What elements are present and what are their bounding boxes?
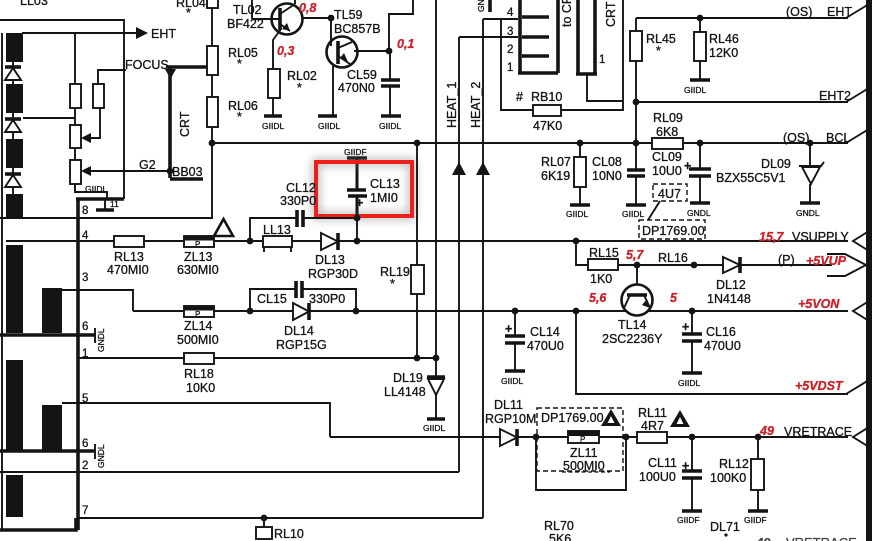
wire VSUPPLY main row y241 (6, 240, 114, 242)
4U7 dashed box (653, 184, 687, 201)
winding W4 outline (0, 518, 76, 530)
wire RL15 feed (576, 241, 588, 265)
svg-text:DL14: DL14 (284, 324, 314, 338)
wire RB10 to CRT column (561, 109, 623, 111)
svg-text:to CR: to CR (560, 0, 574, 27)
svg-text:*: * (390, 277, 395, 291)
svg-text:+5VON: +5VON (798, 297, 840, 311)
wire EHT2 node to BCL wire (635, 102, 637, 144)
svg-text:DL19: DL19 (393, 371, 423, 385)
svg-text:ZL11: ZL11 (570, 446, 598, 460)
node (OS) BCL label (783, 131, 850, 145)
flag VSUPPLY (853, 231, 869, 251)
svg-text:RL05: RL05 (228, 46, 258, 60)
ground GIIDL (DL19) (423, 419, 445, 433)
diode DL13 (308, 233, 358, 281)
svg-text:500MI0: 500MI0 (177, 333, 219, 347)
svg-text:*: * (297, 81, 302, 95)
capacitor CL59 (338, 51, 400, 115)
svg-text:7: 7 (82, 505, 88, 517)
junction CL15 right (353, 308, 360, 315)
svg-text:4U7: 4U7 (658, 187, 681, 201)
resistor RL45 (630, 18, 676, 61)
svg-text:CRT: CRT (178, 111, 192, 137)
svg-text:RL04: RL04 (176, 0, 206, 10)
DP1769.00 dashed box (lower) (537, 408, 623, 471)
resistor RB10 (516, 90, 562, 133)
svg-text:CL09: CL09 (652, 150, 682, 164)
junction CL13 bottom (354, 238, 361, 245)
svg-text:4R7: 4R7 (641, 419, 664, 433)
junction RL15 takeoff (573, 238, 580, 245)
junction emitter node (386, 48, 393, 55)
wire ABL return y218 (0, 217, 213, 219)
wire left rail (1, 33, 3, 530)
flag +5VUP (827, 254, 866, 276)
svg-text:6K19: 6K19 (541, 169, 570, 183)
wiper arrow pot1 (81, 108, 100, 143)
arrow HEAT_1 (452, 162, 466, 175)
wire pin2 row long (0, 471, 459, 473)
svg-text:VRETRACE: VRETRACE (786, 535, 857, 541)
svg-text:5K6: 5K6 (549, 532, 571, 541)
svg-text:P: P (195, 310, 200, 319)
ground GNDL rotated (pin6) (94, 328, 96, 343)
capacitor CL11 electrolytic (639, 437, 702, 510)
wire ZL11 bypass loop (536, 437, 626, 490)
svg-text:GNDL: GNDL (796, 208, 820, 218)
svg-text:+5VDST: +5VDST (795, 379, 844, 393)
flag +5VON (853, 301, 869, 321)
winding W3b (42, 405, 62, 450)
svg-text:GN: GN (476, 0, 486, 12)
wire divider feed (74, 33, 76, 84)
warning triangle filled (ZL11) (601, 409, 621, 426)
winding W2b (42, 288, 62, 333)
svg-text:4: 4 (507, 7, 514, 19)
pin rail vertical (76, 199, 80, 530)
svg-text:12K0: 12K0 (709, 46, 738, 60)
svg-text:RB10: RB10 (531, 90, 562, 104)
wire emitter node up and to top edge (389, 0, 413, 51)
wire DL14 to flag +5VON (309, 310, 848, 312)
svg-text:EHT: EHT (151, 27, 176, 41)
CRT socket stubs (522, 17, 549, 56)
svg-text:+: + (684, 159, 691, 173)
junction RL10 tap (261, 515, 268, 522)
svg-text:RGP10M: RGP10M (485, 412, 536, 426)
winding W1a (6, 33, 23, 62)
svg-text:+5VUP: +5VUP (806, 254, 847, 268)
svg-text:HEAT_2: HEAT_2 (469, 82, 483, 128)
CRT socket spine (518, 0, 522, 74)
svg-text:1N4148: 1N4148 (707, 292, 751, 306)
svg-text:1MI0: 1MI0 (370, 191, 398, 205)
svg-text:EHT2: EHT2 (819, 89, 851, 103)
wire TL02 emitter to RL02 (273, 29, 281, 69)
wire HEAT_2 vertical (482, 19, 484, 518)
junction TL14 base (634, 262, 641, 269)
junction CL13/CL12 (354, 215, 361, 222)
svg-text:DL12: DL12 (716, 278, 746, 292)
svg-text:0,8: 0,8 (299, 1, 316, 15)
svg-text:GNDL: GNDL (96, 444, 106, 468)
svg-text:RL11: RL11 (638, 406, 667, 420)
CRT socket bottom bar (518, 71, 558, 75)
CRT tube U symbol (576, 0, 597, 74)
svg-text:CL12: CL12 (286, 181, 316, 195)
svg-text:RL06: RL06 (228, 99, 258, 113)
potentiometer G2 pot (70, 160, 81, 184)
wire winding bottom y335 (0, 333, 95, 337)
wire BCL row right part (683, 142, 848, 144)
svg-text:LL13: LL13 (263, 223, 291, 237)
junction base TL59 (328, 15, 335, 22)
svg-text:GIIDF: GIIDF (677, 515, 700, 525)
svg-text:RL10: RL10 (274, 527, 304, 541)
resistor RL06 (207, 97, 258, 127)
potentiometer FOCUS pot (70, 125, 81, 148)
svg-text:RL19: RL19 (380, 265, 410, 279)
svg-text:6K8: 6K8 (656, 125, 678, 139)
resistor RL70 label (544, 519, 574, 541)
svg-text:0,1: 0,1 (397, 37, 414, 51)
winding W1b (6, 84, 23, 113)
svg-text:6: 6 (82, 438, 88, 450)
wire pot2 bottom to gnd rail (75, 184, 107, 199)
ground GN stub top (476, 0, 490, 12)
resistor RL02 (268, 69, 317, 98)
junction RL06/BCL (209, 140, 216, 147)
svg-text:LL4148: LL4148 (384, 385, 426, 399)
resistor RL18 (184, 353, 215, 395)
ground GIIDL (CL14) (501, 371, 525, 386)
ground GIIDF (CL11) (677, 511, 702, 525)
wiper arrow pot2 + G2 wire (81, 166, 169, 176)
transistor TL14 (602, 265, 663, 346)
svg-text:DL09: DL09 (761, 157, 791, 171)
svg-text:1K0: 1K0 (590, 272, 612, 286)
ground GIIDL (TL59) (318, 116, 340, 131)
svg-text:6: 6 (82, 321, 88, 333)
capacitor CL12 (280, 181, 316, 227)
svg-text:ZL14: ZL14 (184, 319, 213, 333)
svg-text:P: P (580, 435, 585, 444)
resistor ZL13 fusible (177, 236, 219, 277)
diode DL12 (707, 257, 751, 306)
resistor RL07 (541, 143, 586, 187)
svg-text:100U0: 100U0 (639, 470, 676, 484)
wire RL04-RL05 (211, 8, 213, 46)
wire pin7 row (78, 517, 483, 519)
winding W3a (6, 360, 23, 450)
svg-text:DL11: DL11 (494, 398, 523, 412)
diode D_fb3 (5, 168, 21, 194)
winding W1d (6, 194, 23, 219)
inductor LL13 (263, 223, 292, 252)
wire ZL13 to LL13 (214, 240, 263, 242)
ground GIIDL (RL07) (566, 187, 590, 219)
svg-text:EHT: EHT (827, 5, 852, 19)
wire CRT U bottom drop (587, 74, 623, 101)
svg-text:1: 1 (599, 54, 605, 66)
svg-text:GIIDF: GIIDF (344, 147, 367, 157)
flag VRETRACE (853, 427, 869, 447)
svg-text:ZL13: ZL13 (184, 250, 213, 264)
svg-text:11: 11 (110, 199, 119, 209)
svg-text:CL15: CL15 (257, 292, 287, 306)
wire diag DP to 4U7 (648, 201, 660, 220)
svg-text:GNDL: GNDL (96, 328, 106, 352)
svg-text:VRETRACE: VRETRACE (784, 425, 852, 439)
svg-text:CL59: CL59 (347, 68, 377, 82)
svg-text:49: 49 (755, 535, 771, 541)
svg-text:49: 49 (759, 424, 774, 438)
wire RL15 to DL12 (618, 264, 723, 266)
svg-text:RL18: RL18 (184, 367, 214, 381)
diode DL11 (485, 398, 536, 446)
wire +5VON row y311 (133, 310, 184, 312)
wire VRETRACE row y437 (330, 436, 500, 438)
ground GIIDL (RL46) (684, 61, 710, 95)
wire TL59 emitter right (354, 50, 389, 52)
resistor divider Rb (93, 84, 104, 108)
capacitor CL08 (592, 143, 645, 204)
resistor RL15 (588, 246, 619, 286)
svg-text:RL13: RL13 (114, 250, 144, 264)
CRT socket right bar (556, 0, 560, 73)
wire HEAT_2 top (483, 18, 518, 20)
resistor RL11 (637, 406, 667, 443)
svg-text:*: * (237, 110, 242, 124)
svg-text:RGP30D: RGP30D (308, 267, 358, 281)
warning triangle (open) (214, 219, 233, 236)
junction EHT2 (633, 99, 640, 106)
resistor RL19 (380, 143, 424, 358)
svg-text:10U0: 10U0 (652, 164, 682, 178)
wire EHT takeoff (22, 32, 137, 34)
wire ZL14 to DL14 (214, 310, 294, 312)
junction RL07 (577, 140, 584, 147)
wire pin5 row (62, 403, 330, 437)
capacitor CL15 bypass loop (250, 281, 356, 311)
wire FOCUS thick (166, 65, 212, 69)
svg-text:330P0: 330P0 (280, 194, 316, 208)
svg-text:HEAT_1: HEAT_1 (445, 82, 459, 128)
wire DL12 to +5VUP flag (740, 264, 832, 266)
ground GNDL (CL09) (687, 203, 711, 218)
winding W4 (6, 475, 23, 517)
junction CL16 (689, 308, 696, 315)
wire pin3 row (62, 290, 133, 311)
capacitor CL09 electrolytic (652, 143, 711, 202)
wire RL13-ZL13 (144, 240, 184, 242)
wire top border (0, 20, 124, 199)
svg-text:P: P (195, 240, 200, 249)
wire RL05-RL06 (211, 75, 213, 97)
junction ZL11 left (533, 434, 540, 441)
svg-text:BC857B: BC857B (334, 22, 381, 36)
svg-text:+: + (505, 322, 512, 336)
svg-text:47K0: 47K0 (533, 119, 562, 133)
ground GIIDL (RL02) (262, 98, 284, 131)
winding W2a (6, 245, 23, 333)
svg-text:500MI0: 500MI0 (563, 459, 605, 473)
svg-text:RL07: RL07 (541, 155, 571, 169)
wire DL19 column top (435, 0, 437, 358)
transistor TL59 (327, 37, 358, 68)
svg-text:CRT: CRT (604, 1, 618, 27)
transistor TL02 labels (227, 3, 264, 31)
svg-text:5: 5 (670, 291, 678, 305)
resistor RL12 (710, 437, 764, 510)
svg-text:BCL: BCL (826, 131, 850, 145)
resistor RL13 (107, 236, 149, 277)
svg-text:100K0: 100K0 (710, 471, 746, 485)
svg-text:CL14: CL14 (530, 325, 560, 339)
wire LL13 to DL13 (292, 240, 321, 242)
svg-text:0,3: 0,3 (277, 44, 294, 58)
svg-text:RGP15G: RGP15G (276, 338, 327, 352)
svg-text:RL12: RL12 (719, 457, 749, 471)
red highlight box (316, 162, 412, 216)
svg-text:GIIDL: GIIDL (566, 209, 588, 219)
arrow FOCUS down (165, 69, 176, 79)
resistor RL10 (clipped at bottom) (256, 518, 304, 541)
junction +5VDST takeoff (573, 308, 580, 315)
junction RL16 right (691, 262, 698, 269)
svg-text:*: * (237, 57, 242, 71)
junction DL09 (807, 140, 814, 147)
svg-text:630MI0: 630MI0 (177, 263, 219, 277)
warning triangle filled (RL11) (670, 410, 690, 427)
wire TL02 to TL59 base (302, 18, 331, 46)
wire RL18 to DL19 (214, 357, 436, 359)
resistor RL09 (652, 111, 683, 149)
svg-text:TL59: TL59 (334, 8, 363, 22)
wire HEAT_1 top (459, 36, 518, 38)
ground GNDL (DL09) (796, 203, 820, 218)
ground GIIDF (RL12) (744, 511, 768, 525)
svg-text:*: * (186, 6, 191, 20)
wire DL11 to ZL11 (517, 436, 568, 438)
capacitor CL16 electrolytic (682, 311, 741, 372)
transistor TL02 (252, 0, 303, 35)
CRT socket pin numbers (507, 7, 514, 74)
diode DL14 (276, 303, 327, 352)
junction ZL11 right (623, 434, 630, 441)
node (OS) EHT label (786, 5, 852, 19)
svg-text:GIIDL: GIIDL (622, 209, 644, 219)
svg-text:GNDL: GNDL (687, 208, 711, 218)
svg-text:470U0: 470U0 (527, 339, 564, 353)
svg-text:GIIDL: GIIDL (262, 121, 284, 131)
svg-text:GIIDL: GIIDL (684, 85, 706, 95)
capacitor CL13 (347, 177, 400, 218)
winding W1c (6, 139, 23, 168)
svg-text:470MI0: 470MI0 (107, 263, 149, 277)
EHT arrow (136, 27, 148, 39)
junction G2/CRT (167, 168, 174, 175)
wire RL45 to EHT2 node (635, 61, 637, 102)
svg-text:(OS): (OS) (786, 5, 812, 19)
diode DL19 (384, 358, 445, 418)
wire RL18 row y358 (78, 357, 184, 359)
svg-text:GIIDL: GIIDL (678, 378, 700, 388)
ground GIIDL (CL16) (678, 373, 702, 388)
wire Rb top to FOCUS rail (98, 70, 126, 84)
flag BCL (846, 129, 869, 143)
svg-text:+: + (682, 459, 689, 473)
svg-text:RL16: RL16 (658, 251, 688, 265)
svg-text:RL45: RL45 (646, 32, 676, 46)
svg-text:2: 2 (82, 460, 88, 472)
svg-text:DP1769.00: DP1769.00 (642, 224, 705, 238)
wire Ra to pot1 (74, 108, 76, 125)
svg-text:(P): (P) (778, 253, 795, 267)
junction CL11 (689, 434, 696, 441)
wire BB03 stub thick (170, 177, 203, 181)
wire RL11 to flag (667, 436, 848, 438)
svg-text:GIIDL: GIIDL (501, 376, 523, 386)
wire ZL11 to RL11 (599, 436, 637, 438)
svg-text:+: + (682, 320, 689, 334)
resistor RL46 (694, 18, 739, 61)
svg-text:1: 1 (507, 62, 513, 74)
resistor divider Ra (70, 84, 81, 108)
svg-text:VSUPPLY: VSUPPLY (792, 230, 849, 244)
wire EHT top row (636, 17, 848, 19)
wire CRT right column (622, 0, 624, 111)
diode DL09 zener (761, 143, 824, 202)
svg-text:10N0: 10N0 (592, 169, 622, 183)
svg-text:CL11: CL11 (648, 456, 677, 470)
junction CL14 (512, 308, 519, 315)
svg-text:FOCUS: FOCUS (125, 58, 169, 72)
ground GIIDL (CL59) (379, 116, 401, 131)
svg-text:BZX55C5V1: BZX55C5V1 (716, 171, 786, 185)
svg-text:15,7: 15,7 (759, 230, 784, 244)
svg-text:8: 8 (82, 205, 88, 217)
svg-text:5: 5 (82, 393, 88, 405)
wire TL59 collector to gnd (332, 66, 334, 115)
svg-text:330P0: 330P0 (309, 292, 345, 306)
transistor TL59 labels (334, 8, 381, 36)
junction DL19 (433, 355, 440, 362)
svg-text:DL13: DL13 (315, 253, 345, 267)
wire pot1 to pot2 (74, 148, 76, 160)
wire thick gnd return (76, 197, 124, 201)
DP1769.00 dashed box (639, 220, 705, 239)
flag +5VDST (846, 380, 869, 394)
wire winding bottom y451 (0, 449, 95, 453)
svg-text:CL16: CL16 (706, 325, 736, 339)
resistor RL05 (207, 46, 258, 75)
flag EHT2 (846, 88, 869, 102)
resistor RL04 (clipped top) (176, 0, 218, 20)
resistor ZL14 fusible (177, 306, 219, 347)
diode D_fb1 (5, 62, 21, 84)
junction RL19 bottom (414, 355, 421, 362)
wire RL06 down to BCL wire and y218 (211, 127, 213, 218)
wire +5VDST row (576, 311, 848, 394)
wire winding tap (23, 117, 75, 119)
flag EHT (846, 4, 869, 18)
junction CL09 (697, 140, 704, 147)
svg-text:GIIDL: GIIDL (85, 184, 107, 194)
svg-text:5,7: 5,7 (626, 248, 644, 262)
svg-text:LL03: LL03 (20, 0, 48, 8)
